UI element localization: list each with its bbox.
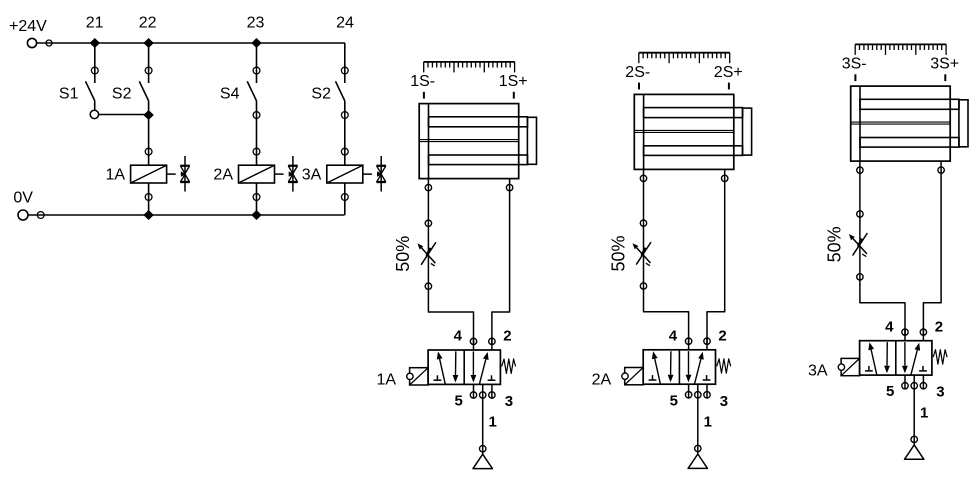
svg-text:50%: 50% — [825, 226, 845, 262]
svg-text:1S+: 1S+ — [499, 73, 528, 90]
svg-text:S2: S2 — [112, 85, 132, 102]
svg-text:3S+: 3S+ — [930, 56, 959, 73]
svg-text:24: 24 — [336, 15, 354, 32]
svg-text:2: 2 — [935, 318, 943, 335]
svg-text:S2: S2 — [311, 85, 331, 102]
svg-text:3S-: 3S- — [842, 56, 867, 73]
svg-text:50%: 50% — [608, 235, 628, 271]
svg-text:S1: S1 — [59, 85, 79, 102]
svg-text:2A: 2A — [592, 371, 612, 388]
svg-text:1A: 1A — [377, 372, 397, 389]
svg-text:1: 1 — [920, 404, 928, 421]
svg-text:4: 4 — [454, 328, 463, 345]
svg-text:2S-: 2S- — [625, 64, 650, 81]
svg-text:5: 5 — [670, 392, 678, 409]
svg-text:3: 3 — [720, 393, 728, 410]
svg-text:1: 1 — [489, 414, 497, 431]
svg-text:1S-: 1S- — [410, 73, 435, 90]
svg-text:S4: S4 — [220, 85, 240, 102]
svg-text:2: 2 — [718, 327, 726, 344]
svg-text:21: 21 — [86, 15, 104, 32]
svg-text:+24V: +24V — [9, 18, 47, 35]
svg-text:22: 22 — [139, 15, 157, 32]
svg-text:3: 3 — [936, 384, 944, 401]
svg-text:50%: 50% — [393, 236, 413, 272]
svg-text:4: 4 — [885, 318, 894, 335]
svg-text:5: 5 — [886, 383, 894, 400]
svg-text:2S+: 2S+ — [714, 64, 743, 81]
svg-text:0V: 0V — [13, 190, 33, 207]
svg-text:2A: 2A — [213, 167, 233, 184]
svg-text:3A: 3A — [302, 167, 322, 184]
svg-text:3A: 3A — [808, 362, 828, 379]
svg-text:4: 4 — [669, 327, 678, 344]
svg-text:23: 23 — [247, 15, 265, 32]
svg-text:1: 1 — [704, 413, 712, 430]
svg-text:3: 3 — [505, 393, 513, 410]
svg-text:2: 2 — [503, 328, 511, 345]
svg-text:5: 5 — [455, 393, 463, 410]
svg-text:1A: 1A — [106, 167, 126, 184]
